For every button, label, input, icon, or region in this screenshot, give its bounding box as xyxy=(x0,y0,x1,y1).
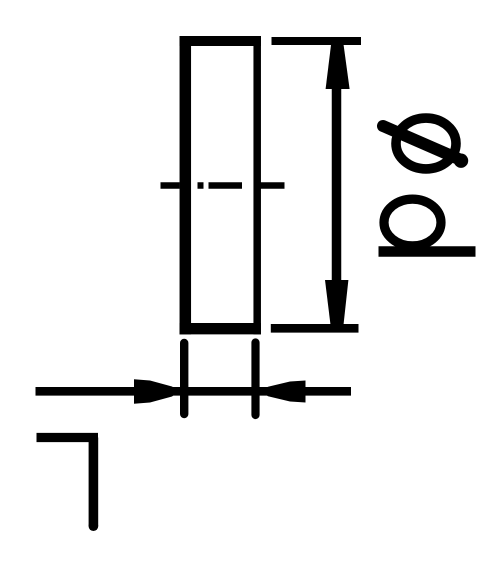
diameter symbol (rotated ø) xyxy=(383,118,468,169)
arrowhead left-pointing (width dimension, right) xyxy=(261,381,306,403)
part outline: rectangle left edge xyxy=(180,36,192,334)
arrowhead right-pointing (width dimension, left) xyxy=(134,379,179,404)
corner leader symbol (bent line) xyxy=(37,438,99,532)
extension line left (width dimension) xyxy=(180,343,188,414)
extension line right (width dimension) xyxy=(251,343,259,416)
vertical dimension bottom bar xyxy=(271,324,359,333)
arrowhead down (vertical dimension, bottom) xyxy=(325,280,348,324)
centerline (dash-dot) xyxy=(161,182,285,189)
vertical dimension line (shaft) xyxy=(332,46,342,324)
letter d (rotated 90deg) xyxy=(379,199,476,251)
part outline: rectangle bottom edge xyxy=(180,323,261,334)
vertical dimension top bar xyxy=(272,37,362,45)
part outline: rectangle right edge xyxy=(253,36,261,334)
horizontal dimension line xyxy=(36,387,352,396)
part outline: rectangle top edge xyxy=(180,36,261,46)
arrowhead up (vertical dimension, top) xyxy=(326,45,350,89)
